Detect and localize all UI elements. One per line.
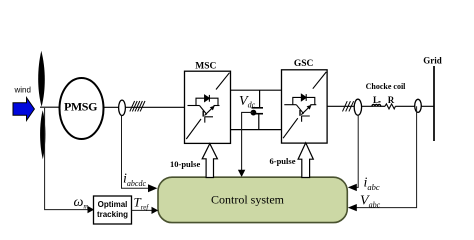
svg-text:Optimal: Optimal (98, 200, 128, 209)
arrow T_ref into control system (152, 207, 159, 214)
wire GSC to grid (327, 105, 372, 107)
current sensor CT1 (119, 100, 126, 115)
gate pulse block arrow to GSC (298, 143, 313, 178)
converter GSC box (282, 70, 328, 143)
inductor L coil (372, 104, 381, 106)
svg-text:6-pulse: 6-pulse (270, 156, 296, 166)
gate lead L (205, 117, 213, 123)
node V_dc tap junction dot (251, 110, 257, 116)
3-phase hatch marks right (343, 101, 354, 111)
wire shaft hub to PMSG (40, 106, 60, 108)
diagonal top-right (216, 73, 230, 90)
control system block (158, 177, 347, 222)
svg-text:Chocke coil: Chocke coil (366, 82, 407, 91)
collector slant (200, 106, 207, 115)
svg-text:tracking: tracking (97, 210, 128, 219)
GSC interior IGBT leg (283, 72, 326, 138)
MSC interior IGBT leg (186, 73, 229, 139)
wire i_abc sensor CT2 to control system (357, 115, 359, 187)
wire DC rail bottom (231, 129, 282, 131)
turbine blade top (38, 51, 45, 107)
svg-text:GSC: GSC (294, 59, 314, 69)
wire V_abc from VT to control system (357, 106, 417, 207)
arrow omega_m into optimal tracking (88, 206, 95, 213)
diode loop top (196, 98, 218, 105)
optimal tracking block (94, 196, 132, 224)
wire omega_m from hub to optimal tracking (45, 108, 88, 210)
arrow V_dc into control system (238, 170, 245, 177)
gate bar (202, 111, 204, 117)
current sensor CT2 (354, 99, 361, 115)
collector bar left (188, 105, 200, 107)
wire V_dc tap to control system (242, 112, 253, 170)
arrow i_abcdc into control system (148, 184, 157, 192)
wire DC rail top (231, 89, 282, 91)
wind arrow (13, 98, 34, 121)
svg-text:Control system: Control system (211, 193, 285, 207)
svg-text:MSC: MSC (195, 61, 216, 71)
svg-text:wind: wind (14, 86, 31, 95)
grid bus bar (433, 66, 435, 141)
wire T_ref optimal tracking to control system (132, 209, 153, 211)
diode D (205, 95, 210, 101)
svg-text:L: L (373, 95, 379, 105)
3-phase hatch marks left (130, 101, 145, 111)
generator PMSG (60, 78, 104, 139)
arrow V_abc into control system (348, 204, 357, 211)
emitter slant with arrow (205, 107, 214, 116)
turbine blade bottom (40, 110, 45, 159)
arrow i_abc into control system (348, 184, 357, 191)
emitter bar right (214, 105, 220, 107)
resistor R zigzag (385, 104, 396, 109)
svg-text:10-pulse: 10-pulse (170, 159, 200, 169)
diagonal bottom-left (186, 119, 201, 139)
voltage sensor VT (415, 99, 422, 112)
svg-text:PMSG: PMSG (64, 100, 97, 114)
wire PMSG to MSC (104, 106, 185, 108)
wire i_abcdc sensor to control system (122, 116, 149, 189)
svg-text:Grid: Grid (423, 56, 442, 66)
capacitor C dc-link (252, 90, 264, 129)
converter MSC box (185, 71, 231, 143)
gate pulse block arrow to MSC (202, 144, 217, 178)
